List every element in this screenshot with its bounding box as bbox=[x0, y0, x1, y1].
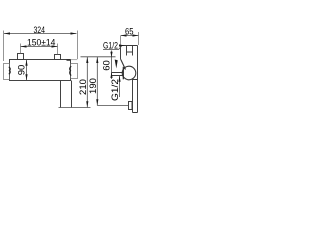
outlet tube front view bbox=[61, 81, 72, 108]
arrow 324 right bbox=[71, 32, 77, 34]
body top right dark segment bbox=[67, 59, 71, 61]
arrow 90 bottom bbox=[25, 74, 27, 80]
dim 190 line bbox=[96, 57, 98, 106]
outlet nipple side view bbox=[112, 73, 124, 76]
left connection square bbox=[18, 54, 24, 60]
G1/2 bottom leader bbox=[119, 76, 121, 97]
right grip mark bbox=[70, 66, 72, 75]
svg-text:324: 324 bbox=[33, 25, 45, 36]
arrow 150 left bbox=[21, 45, 27, 47]
knob circle side view bbox=[122, 66, 136, 80]
flange bbox=[129, 102, 133, 110]
dim 324 line bbox=[4, 33, 77, 35]
arrow 210 top bbox=[86, 57, 88, 63]
svg-text:G1/2: G1/2 bbox=[110, 79, 121, 101]
dim 150 line bbox=[21, 46, 58, 48]
top reference line bbox=[81, 56, 116, 58]
knob neck chord bbox=[122, 67, 124, 80]
G1/2 top underline and leader bbox=[103, 46, 122, 49]
arrow 210 bottom bbox=[86, 101, 88, 107]
dim 210 baseline bbox=[59, 107, 91, 109]
svg-text:90: 90 bbox=[17, 65, 28, 76]
dim 65 ext left bbox=[120, 36, 122, 45]
side view body top bbox=[121, 45, 138, 47]
svg-text:60: 60 bbox=[102, 60, 113, 71]
arrow 90 top bbox=[25, 60, 27, 66]
dim 324 ext right bbox=[77, 31, 79, 60]
side view notch bbox=[127, 46, 133, 56]
arrow 65 left bbox=[121, 34, 127, 36]
svg-text:65: 65 bbox=[125, 27, 134, 38]
arrow G12 top leader bbox=[119, 44, 125, 46]
dim 150 ext left bbox=[20, 44, 22, 54]
arrow 60 top bbox=[110, 52, 112, 58]
dim 65 line bbox=[121, 35, 139, 37]
dim 90 line bbox=[26, 60, 28, 81]
svg-text:G1/2: G1/2 bbox=[103, 40, 118, 51]
dim 324 ext left bbox=[3, 31, 5, 62]
right knob bbox=[71, 64, 78, 79]
lever diagonal bbox=[121, 60, 126, 70]
side view wall edge bbox=[137, 46, 139, 113]
dim 150 ext right bbox=[57, 44, 59, 55]
svg-text:150±14: 150±14 bbox=[27, 38, 56, 49]
dim 65 ext right bbox=[138, 32, 140, 45]
arrow 190 top bbox=[96, 57, 98, 63]
arrow 60 bottom bbox=[110, 72, 112, 78]
arrow 65 right bbox=[133, 34, 139, 36]
arrow 190 bottom bbox=[96, 99, 98, 105]
right connection square bbox=[55, 55, 61, 60]
lever wedge bbox=[115, 60, 118, 69]
front view body bbox=[10, 60, 71, 81]
left knob bbox=[4, 64, 10, 80]
knob top faint line bbox=[71, 59, 78, 61]
svg-text:190: 190 bbox=[88, 78, 99, 94]
dim 190 baseline bbox=[97, 105, 128, 107]
dim 210 line bbox=[86, 57, 88, 108]
arrow 150 right bbox=[52, 45, 58, 47]
left grip mark bbox=[9, 67, 10, 74]
arrow G12 bottom leader bbox=[118, 76, 120, 82]
dim 60 line bbox=[111, 51, 113, 80]
side view left edge bbox=[120, 46, 122, 60]
wall pipe bbox=[133, 80, 138, 113]
arrow 324 left bbox=[4, 32, 10, 34]
